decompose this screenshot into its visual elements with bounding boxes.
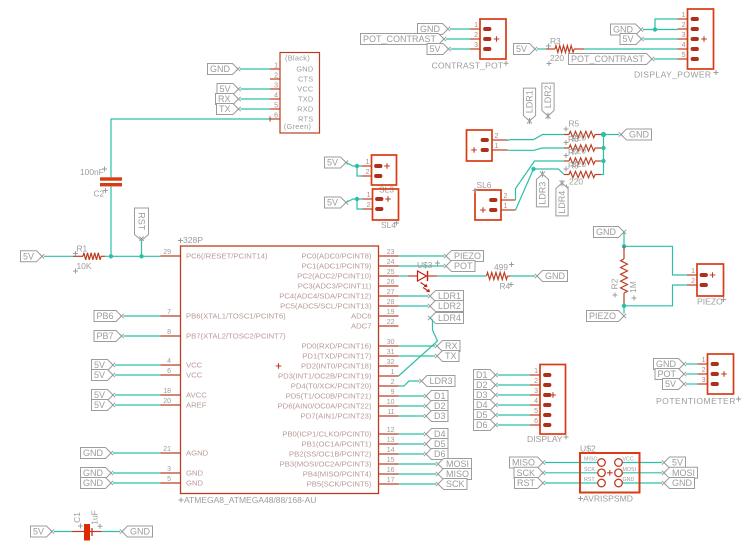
svg-text:LDR3: LDR3 <box>538 182 548 205</box>
svg-text:5V: 5V <box>327 158 338 168</box>
wire PD/PB to D3 flag <box>399 415 425 417</box>
svg-text:16: 16 <box>387 467 395 474</box>
wire GND to FTDI pin1 <box>240 68 270 70</box>
svg-text:PD0(RXD/PCINT16): PD0(RXD/PCINT16) <box>301 342 371 351</box>
svg-text:LDR4: LDR4 <box>438 313 461 323</box>
svg-text:2: 2 <box>495 133 499 140</box>
svg-text:PIEZO: PIEZO <box>589 311 616 321</box>
net flag 5V (VCC pin4) <box>92 360 116 371</box>
svg-text:1M: 1M <box>628 281 638 293</box>
net flag GND (C1) <box>120 526 153 537</box>
svg-text:D1: D1 <box>476 370 488 380</box>
svg-text:31: 31 <box>387 349 395 356</box>
svg-text:PB7(XTAL2/TOSC2/PCINT7): PB7(XTAL2/TOSC2/PCINT7) <box>186 332 286 341</box>
wire GND to DISPLAY_POWER pin2 <box>643 29 678 31</box>
svg-text:21: 21 <box>163 446 171 453</box>
svg-text:27: 27 <box>387 289 395 296</box>
connector DISPLAY <box>527 365 569 445</box>
junction bus row1 <box>601 132 606 137</box>
svg-text:R4: R4 <box>500 281 511 291</box>
ATMEGA left pin stubs and numbers <box>161 249 287 488</box>
svg-text:GND: GND <box>83 448 104 458</box>
junction LDR4 net <box>531 167 535 171</box>
net flag LDR2 (PC5) <box>428 301 464 312</box>
svg-text:5: 5 <box>682 52 686 59</box>
svg-text:AVRISPSMD: AVRISPSMD <box>583 494 633 504</box>
net flag D2 (IC side) <box>424 401 448 412</box>
svg-text:4: 4 <box>534 398 538 405</box>
wire GND pin5 <box>113 482 161 484</box>
connector POTENTIOMETER <box>656 354 741 406</box>
svg-text:5V: 5V <box>672 458 683 468</box>
net flag D4 (IC side) <box>424 429 448 440</box>
svg-text:(Black): (Black) <box>285 54 310 63</box>
wire 5V VCC4 <box>115 364 161 366</box>
net flag PIEZO <box>587 311 627 322</box>
connector SL5 <box>467 130 508 161</box>
svg-text:3: 3 <box>534 388 538 395</box>
net flag GND (pin5) <box>81 478 114 489</box>
net flag POT (potentiometer) <box>655 369 686 380</box>
svg-text:11: 11 <box>387 409 394 416</box>
svg-text:4: 4 <box>274 93 278 100</box>
svg-text:TXD: TXD <box>298 95 314 104</box>
svg-text:D3: D3 <box>476 390 488 400</box>
net flag MOSI (IC side) <box>436 459 472 470</box>
resistor R2 1M (vertical) <box>610 246 639 305</box>
svg-text:GND: GND <box>83 468 104 478</box>
svg-text:ADC6: ADC6 <box>351 312 372 321</box>
svg-text:D2: D2 <box>434 401 446 411</box>
connector DISPLAY_POWER <box>634 9 719 80</box>
wire AVRISP to MOSI <box>622 472 662 474</box>
net flag D6 (display side) <box>474 420 498 431</box>
net label LDR1 (vertical) <box>523 88 535 124</box>
svg-text:3: 3 <box>167 466 171 473</box>
net flag 5V (avrisp) <box>662 457 686 468</box>
junction SL3 5V <box>355 164 359 168</box>
svg-text:SL6: SL6 <box>477 180 492 190</box>
svg-text:GND: GND <box>130 527 151 537</box>
svg-text:1: 1 <box>391 369 395 376</box>
svg-text:MISO: MISO <box>512 458 535 468</box>
svg-text:8: 8 <box>167 329 171 336</box>
svg-text:5V: 5V <box>94 400 105 410</box>
net flag GND (piezo) <box>594 227 627 238</box>
svg-text:POT_CONTRAST: POT_CONTRAST <box>571 54 645 64</box>
svg-text:30: 30 <box>387 339 395 346</box>
wire PC5 to LDR2 flag <box>399 305 429 307</box>
net flag D1 (IC side) <box>424 391 448 402</box>
svg-text:PC5(ADC5/SCL/PCINT13): PC5(ADC5/SCL/PCINT13) <box>280 302 372 311</box>
svg-text:3: 3 <box>682 32 686 39</box>
svg-text:GND: GND <box>629 130 650 140</box>
svg-text:MOSI: MOSI <box>623 467 637 473</box>
svg-text:RX: RX <box>445 341 458 351</box>
svg-text:220: 220 <box>569 177 583 187</box>
svg-text:POTENTIOMETER: POTENTIOMETER <box>656 396 736 406</box>
net flag GND (R ladder) <box>619 129 652 140</box>
R5-R8 name/value labels <box>564 119 587 190</box>
wire PD/PB to D5 flag <box>399 443 425 445</box>
connector SL4 <box>363 189 400 230</box>
svg-text:DISPLAY_POWER: DISPLAY_POWER <box>634 70 711 80</box>
connector SL3 <box>362 155 397 195</box>
wire D4 to DISPLAY pin4 <box>498 404 531 406</box>
svg-text:5V: 5V <box>23 252 34 262</box>
resistor R8 220 <box>564 171 601 177</box>
wire AVRISP to GND <box>622 482 662 484</box>
wire D3 to DISPLAY pin3 <box>498 394 531 396</box>
svg-text:19: 19 <box>387 309 395 316</box>
wire 5V to SL4 <box>346 199 363 203</box>
svg-text:PC2(ADC2/PCINT10): PC2(ADC2/PCINT10) <box>297 272 372 281</box>
svg-text:2: 2 <box>474 32 478 39</box>
net flag RST (vertical) <box>135 208 149 241</box>
wire RTS net from FTDI pin6 to C2/R1 node <box>111 119 270 177</box>
svg-text:PD7(AIN1/PCINT23): PD7(AIN1/PCINT23) <box>301 412 372 421</box>
svg-text:D2: D2 <box>476 380 488 390</box>
net flag LDR1 (PC4) <box>428 291 464 302</box>
svg-text:5V: 5V <box>516 44 527 54</box>
wire SL6 pin2 to R7 <box>516 161 565 200</box>
wire 5V to pin3 <box>451 48 471 50</box>
svg-text:DISPLAY: DISPLAY <box>527 434 563 444</box>
junction piezo bottom <box>622 304 626 308</box>
svg-text:1: 1 <box>682 12 686 19</box>
svg-text:12: 12 <box>387 427 395 434</box>
svg-text:U$2: U$2 <box>580 444 596 454</box>
svg-text:2: 2 <box>274 73 278 80</box>
wire PD4 to LDR3 flag <box>399 381 420 386</box>
wire 5V AREF <box>115 404 161 406</box>
resistor R5 220 <box>564 131 601 137</box>
svg-text:20: 20 <box>163 398 171 405</box>
svg-text:6: 6 <box>274 113 278 120</box>
svg-text:GND: GND <box>186 479 204 488</box>
wire 5V to SL3 <box>346 163 362 167</box>
wire TX to FTDI pin5 <box>241 108 271 110</box>
net flag GND (contrast pot) <box>418 24 451 35</box>
resistor R1 10K <box>73 244 105 274</box>
svg-text:R5: R5 <box>569 119 580 129</box>
wire 5V to C1 <box>54 531 72 533</box>
wire R1 to ATMEGA pin29 <box>105 255 161 257</box>
svg-text:GND: GND <box>672 478 693 488</box>
net flag 5V (potentiometer) <box>663 379 687 390</box>
svg-text:23: 23 <box>387 249 395 256</box>
wire PD/PB to D2 flag <box>399 405 425 407</box>
svg-text:ADC7: ADC7 <box>351 322 372 331</box>
LED U$3 on PC2 net <box>399 260 441 292</box>
svg-text:1: 1 <box>691 268 695 275</box>
svg-text:RST: RST <box>584 477 595 483</box>
svg-text:25: 25 <box>387 269 395 276</box>
wire R4 to GND flag <box>510 275 535 277</box>
wire 5V AVCC <box>115 394 161 396</box>
svg-text:5: 5 <box>167 476 171 483</box>
net flag 5V (AVCC) <box>92 390 116 401</box>
wire D5 to DISPLAY pin5 <box>498 414 531 416</box>
svg-text:3: 3 <box>702 377 706 384</box>
svg-text:499: 499 <box>494 262 508 272</box>
svg-text:POT: POT <box>657 369 676 379</box>
svg-text:5V: 5V <box>94 360 105 370</box>
svg-text:PB0(ICP1/CLKO/PCINT0): PB0(ICP1/CLKO/PCINT0) <box>282 430 372 439</box>
svg-text:LDR1: LDR1 <box>438 291 461 301</box>
svg-text:1: 1 <box>534 368 538 375</box>
net flag 5V (SL4) <box>325 197 349 208</box>
svg-text:D5: D5 <box>476 410 488 420</box>
net flag MOSI (avrisp) <box>662 467 698 478</box>
svg-text:32: 32 <box>387 359 395 366</box>
svg-text:TX: TX <box>445 351 457 361</box>
svg-text:GND: GND <box>296 65 313 74</box>
net flag RX (PD0) <box>435 341 460 352</box>
wire R3 to DISPLAY_POWER pin4 <box>584 48 678 50</box>
svg-text:PD3(INT1/OC2B/PCINT19): PD3(INT1/OC2B/PCINT19) <box>278 372 372 381</box>
wire POT_CONTRAST to pin2 <box>446 38 470 40</box>
svg-text:C2: C2 <box>94 189 105 199</box>
svg-text:D6: D6 <box>434 449 446 459</box>
svg-text:MISO: MISO <box>446 469 469 479</box>
svg-text:SL4: SL4 <box>381 220 396 230</box>
wire PC1 to POT flag <box>399 265 445 267</box>
svg-text:5V: 5V <box>622 34 633 44</box>
wire MISO to AVRISP <box>545 462 598 464</box>
wire SL5 pin2 to R5 <box>508 135 565 141</box>
svg-text:5V: 5V <box>33 527 44 537</box>
svg-text:PC0(ADC0/PCINT8): PC0(ADC0/PCINT8) <box>301 252 371 261</box>
net label LDR3 (vertical) <box>536 171 548 207</box>
svg-text:MOSI: MOSI <box>446 459 469 469</box>
svg-text:RX: RX <box>218 94 231 104</box>
svg-text:4: 4 <box>167 358 171 365</box>
wire GND pin3 <box>113 472 161 474</box>
svg-text:LDR3: LDR3 <box>429 376 452 386</box>
net flag PB7 <box>94 331 124 342</box>
svg-text:PB4(MISO/PCINT4): PB4(MISO/PCINT4) <box>303 470 372 479</box>
svg-text:220: 220 <box>572 133 586 143</box>
wire PB6 <box>124 315 161 317</box>
wire SL5 pin1 to R6 <box>508 148 565 150</box>
net flag 5V (far left) <box>21 251 45 262</box>
wire C1 to GND <box>102 531 121 533</box>
svg-text:PB6: PB6 <box>96 311 113 321</box>
net flag D5 (IC side) <box>424 439 448 450</box>
net flag D3 (IC side) <box>424 411 448 422</box>
svg-text:1: 1 <box>702 357 706 364</box>
svg-text:220: 220 <box>572 146 586 156</box>
resistor R4 499 <box>487 262 515 291</box>
svg-text:PIEZO: PIEZO <box>454 251 481 261</box>
net flag GND (FTDI pin1) <box>208 64 241 75</box>
resistor R7 220 <box>564 158 601 164</box>
svg-text:100nF: 100nF <box>80 167 104 177</box>
net flag 5V (SL3) <box>325 157 349 168</box>
wire PD/PB to D4 flag <box>399 433 425 435</box>
svg-text:GND: GND <box>210 64 231 74</box>
wire R ladder to GND bus <box>601 134 619 136</box>
svg-text:2: 2 <box>702 367 706 374</box>
net flag D1 (display side) <box>474 370 498 381</box>
svg-text:PC3(ADC3/PCINT11): PC3(ADC3/PCINT11) <box>298 282 372 291</box>
wire D1 to DISPLAY pin1 <box>498 374 531 376</box>
svg-text:D3: D3 <box>434 411 446 421</box>
svg-text:3: 3 <box>474 42 478 49</box>
svg-text:SCK: SCK <box>516 468 535 478</box>
svg-text:LDR4: LDR4 <box>557 191 567 214</box>
svg-text:D4: D4 <box>434 429 446 439</box>
svg-text:PC6(/RESET/PCINT14): PC6(/RESET/PCINT14) <box>186 252 268 261</box>
svg-text:D6: D6 <box>476 420 488 430</box>
svg-text:PB5(SCK/PCINT5): PB5(SCK/PCINT5) <box>307 480 372 489</box>
svg-text:GND: GND <box>83 478 104 488</box>
wire GND AGND <box>113 452 161 454</box>
svg-text:PIEZO: PIEZO <box>697 297 723 307</box>
wire RX to FTDI pin4 <box>241 98 271 100</box>
svg-text:220: 220 <box>572 159 586 169</box>
wire D2 to DISPLAY pin2 <box>498 384 531 386</box>
ATMEGA right pin stubs and numbers <box>276 249 399 489</box>
svg-text:(Green): (Green) <box>284 122 312 131</box>
svg-text:GND: GND <box>545 271 566 281</box>
svg-text:328P: 328P <box>183 235 203 245</box>
junction GND display power <box>653 27 657 31</box>
wire GND to CONTRAST_POT pin1 <box>450 28 470 30</box>
wire PB to SCK flag <box>399 483 437 485</box>
svg-text:PD4(T0/XCK/PCINT20): PD4(T0/XCK/PCINT20) <box>291 382 372 391</box>
wire C2 to RESET node <box>110 187 112 257</box>
svg-text:220: 220 <box>550 53 564 63</box>
net flag 5V (FTDI VCC) <box>217 84 241 95</box>
wire PD0 to RX flag <box>399 345 436 347</box>
junction at RST/RESET <box>139 254 143 258</box>
connector SL6 <box>473 180 516 220</box>
svg-text:D5: D5 <box>434 439 446 449</box>
svg-text:LDR2: LDR2 <box>438 301 461 311</box>
wire PD/PB to D6 flag <box>399 453 425 455</box>
capacitor C1 1uF <box>72 510 103 540</box>
svg-text:POT_CONTRAST: POT_CONTRAST <box>363 34 437 44</box>
svg-text:D1: D1 <box>434 391 446 401</box>
svg-text:1: 1 <box>474 22 478 29</box>
svg-text:7: 7 <box>167 309 171 316</box>
svg-text:LDR1: LDR1 <box>525 90 535 113</box>
svg-text:VCC: VCC <box>186 361 203 370</box>
svg-text:VCC: VCC <box>186 371 203 380</box>
svg-text:RST: RST <box>136 212 146 231</box>
junction SL4 5V <box>355 197 359 201</box>
wire PB7 <box>124 335 161 337</box>
net flag 5V (display power) <box>620 34 644 45</box>
svg-text:5V: 5V <box>94 370 105 380</box>
net flag 5V (AREF) <box>92 400 116 411</box>
svg-text:5V: 5V <box>429 44 440 54</box>
svg-text:13: 13 <box>387 437 395 444</box>
svg-text:VCC: VCC <box>623 457 634 463</box>
net flag D2 (display side) <box>474 380 498 391</box>
net flag D6 (IC side) <box>424 449 448 460</box>
net flag 5V (VCC pin6) <box>92 370 116 381</box>
svg-text:MISO: MISO <box>584 457 598 463</box>
net flag MISO (avrisp) <box>510 457 546 468</box>
svg-text:GND: GND <box>420 24 441 34</box>
net flag 5V (C1) <box>31 526 55 537</box>
net flag D5 (display side) <box>474 410 498 421</box>
net flag GND (R4) <box>535 271 568 282</box>
net flag GND (avrisp) <box>662 478 695 489</box>
junction bus row2 <box>601 146 605 150</box>
wire POT_CONTRAST to pin5 <box>654 58 678 60</box>
svg-text:4: 4 <box>682 42 686 49</box>
connector PIEZO <box>687 264 726 307</box>
wire RST to AVRISP <box>545 482 598 484</box>
resistor R3 220 <box>546 36 584 66</box>
wire piezo flag stub <box>623 306 625 314</box>
svg-text:10K: 10K <box>77 261 92 271</box>
svg-text:1: 1 <box>274 63 278 70</box>
svg-text:5V: 5V <box>665 379 676 389</box>
svg-text:2: 2 <box>682 22 686 29</box>
net flag 5V (contrast pot) <box>427 44 451 55</box>
wire 5V to FTDI pin3 <box>241 88 271 90</box>
svg-text:POT: POT <box>454 261 473 271</box>
wire DISPLAY_POWER pin1 jog <box>655 19 678 30</box>
svg-text:MOSI: MOSI <box>672 468 695 478</box>
wire AVRISP to 5V <box>622 462 662 464</box>
net flag D3 (display side) <box>474 390 498 401</box>
svg-text:2: 2 <box>391 379 395 386</box>
svg-text:26: 26 <box>387 279 395 286</box>
wire LDR4 flag to pin1 PD3 <box>399 318 438 376</box>
svg-text:PB2(SS/OC1B/PCINT2): PB2(SS/OC1B/PCINT2) <box>289 450 372 459</box>
resistor R6 220 <box>564 145 601 151</box>
svg-text:2: 2 <box>691 278 695 285</box>
svg-text:R2: R2 <box>610 278 620 289</box>
wire POT pot <box>686 373 698 375</box>
svg-text:GND: GND <box>596 227 617 237</box>
net flag 5V (R3) <box>514 44 538 55</box>
net flag SCK (avrisp) <box>514 467 545 478</box>
wire D6 to DISPLAY pin6 <box>498 424 531 426</box>
net flag D4 (display side) <box>474 400 498 411</box>
svg-text:9: 9 <box>391 389 395 396</box>
connector FTDI serial header <box>270 53 320 134</box>
wire LED to R4 <box>437 275 487 277</box>
svg-text:2: 2 <box>504 193 508 200</box>
svg-text:1: 1 <box>504 203 508 210</box>
svg-text:PD6(AIN0/OC0A/PCINT22): PD6(AIN0/OC0A/PCINT22) <box>278 402 372 411</box>
svg-text:U$3: U$3 <box>417 260 433 270</box>
net flag LDR3 (PD4) <box>419 376 455 387</box>
svg-text:24: 24 <box>387 259 395 266</box>
wire GND pot <box>686 363 698 365</box>
svg-text:AGND: AGND <box>186 449 209 458</box>
svg-text:PC4(ADC4/SDA/PCINT12): PC4(ADC4/SDA/PCINT12) <box>279 292 372 301</box>
svg-text:18: 18 <box>163 388 171 395</box>
svg-text:R3: R3 <box>550 36 561 46</box>
wire 5V VCC6 <box>115 374 161 376</box>
svg-text:29: 29 <box>163 249 171 256</box>
net flag GND (display power) <box>611 24 644 35</box>
svg-text:3: 3 <box>274 83 278 90</box>
svg-text:PD2(INT0/PCINT18): PD2(INT0/PCINT18) <box>301 362 372 371</box>
svg-text:6: 6 <box>167 368 171 375</box>
svg-text:5: 5 <box>274 103 278 110</box>
wire 5V pot <box>686 383 698 385</box>
wire piezo bottom to pin2 <box>624 285 687 306</box>
